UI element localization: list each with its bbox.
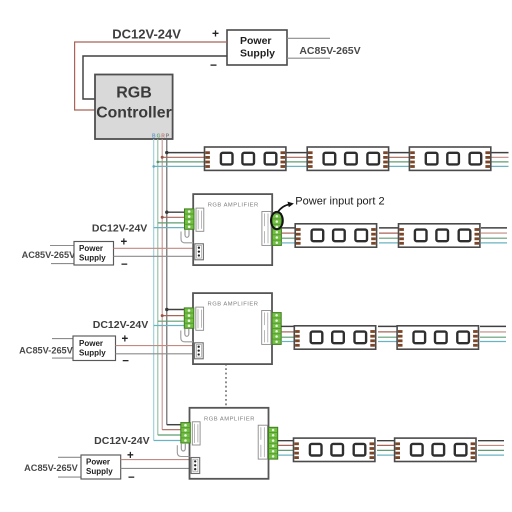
rgb amplifier A1 <box>181 194 281 265</box>
wire PS2 AC stub bottom <box>51 263 74 265</box>
wire amp3 out green <box>278 449 294 451</box>
wire tap amp2 black <box>167 309 186 311</box>
wire PS3 AC stub bottom <box>52 357 73 359</box>
wire tap amp3 green <box>158 434 183 436</box>
wire PS4 AC stub top <box>58 456 81 458</box>
svg-text:+: + <box>212 27 219 41</box>
junction row1 blue <box>152 165 155 168</box>
wire amp2 out red <box>281 331 295 333</box>
wire amp2 out black <box>281 325 295 327</box>
wire tap amp3 blue <box>154 440 183 442</box>
wire amp3 out black <box>278 440 294 442</box>
wire PS3 minus to amp2 port1 (gray) <box>116 353 195 355</box>
junction amp1 red <box>161 216 164 219</box>
svg-text:Supply: Supply <box>240 48 275 60</box>
arrow to label <box>278 204 291 212</box>
wire tap amp1 blue <box>154 227 186 229</box>
wire PS4 plus to amp3 port1 (red) <box>121 459 191 461</box>
wire amp3 out red <box>278 444 294 446</box>
svg-text:AC85V-265V: AC85V-265V <box>299 45 360 57</box>
wire tap amp1 black <box>167 211 186 213</box>
row3 tail wires <box>480 326 506 341</box>
row3 gap wires <box>378 326 398 341</box>
junction row1 red <box>161 156 164 159</box>
wire tap amp3 red <box>162 429 182 431</box>
svg-text:DC12V-24V: DC12V-24V <box>112 26 181 41</box>
power supply PS2 <box>74 242 114 266</box>
svg-text:Power: Power <box>240 35 272 47</box>
row1 gap wires 1-2 <box>285 153 308 167</box>
svg-text:AC85V-265V: AC85V-265V <box>19 345 73 355</box>
row2 gap wires <box>379 228 399 243</box>
wire tap amp1 green <box>158 222 186 224</box>
rgb amplifier A3 <box>177 408 277 479</box>
wire PS1 AC line bottom <box>287 57 330 59</box>
svg-text:DC12V-24V: DC12V-24V <box>93 319 148 331</box>
wire bus black vertical <box>166 139 168 425</box>
wire amp2 out green <box>281 336 295 338</box>
wire tap row1 red <box>162 156 204 158</box>
wire bus green vertical <box>157 139 159 435</box>
wire PS3 plus to amp2 port1 (red) <box>116 345 195 347</box>
wire tap row1 blue <box>154 165 205 167</box>
svg-text:−: − <box>210 58 217 72</box>
wire amp1 out green <box>281 237 296 239</box>
svg-text:DC12V-24V: DC12V-24V <box>92 223 147 235</box>
row2 tail wires <box>481 228 507 243</box>
wire amp2 out blue <box>281 341 295 343</box>
LED strip row2 #2 <box>399 224 480 247</box>
svg-text:+: + <box>122 333 129 345</box>
svg-text:Supply: Supply <box>79 349 106 358</box>
wire PS2 minus to amp1 port1 (gray) <box>114 255 195 257</box>
svg-text:AC85V-265V: AC85V-265V <box>22 250 76 260</box>
wire PS1 plus to controller (red) <box>75 42 227 110</box>
rgb amplifier A2 <box>181 293 281 364</box>
row1 gap wires 2-3 <box>388 153 410 167</box>
wire bus blue vertical <box>153 139 155 441</box>
wire PS2 plus to amp1 port1 (red) <box>114 247 195 249</box>
wire tap amp2 red <box>162 315 186 317</box>
wire PS1 minus to controller (black) <box>83 56 227 99</box>
svg-text:Supply: Supply <box>79 254 106 263</box>
power supply PS3 <box>73 336 116 361</box>
junction amp2 red <box>161 314 164 317</box>
power supply PS1 <box>227 30 287 65</box>
wire tap amp1 red <box>162 216 186 218</box>
svg-text:+: + <box>121 237 128 249</box>
wire bus red vertical <box>161 139 163 430</box>
svg-text:Power: Power <box>86 458 110 467</box>
svg-text:Supply: Supply <box>86 467 113 476</box>
RGB controller U1 <box>95 75 173 140</box>
svg-text:−: − <box>121 259 128 271</box>
wire PS4 AC stub bottom <box>58 476 81 478</box>
row1 tail wires <box>490 153 509 167</box>
wire PS3 AC stub top <box>52 338 73 340</box>
svg-text:G: G <box>157 134 161 140</box>
junction amp1 black <box>165 211 168 214</box>
power supply PS4 <box>81 455 121 479</box>
wire tap row1 green <box>158 161 205 163</box>
LED strip row3 #2 <box>397 326 478 349</box>
wire tap row1 black <box>167 152 205 154</box>
svg-text:Controller: Controller <box>96 105 171 122</box>
wire tap amp2 green <box>158 320 186 322</box>
svg-text:R: R <box>161 134 165 140</box>
wire PS4 minus to amp3 port1 (gray) <box>121 467 191 469</box>
svg-text:Power: Power <box>79 339 103 348</box>
LED strip row1 #2 <box>307 147 388 170</box>
svg-text:−: − <box>128 472 135 484</box>
LED strip row3 #1 <box>294 326 375 349</box>
wire tap amp2 blue <box>154 325 186 327</box>
wire amp1 out black <box>281 227 296 229</box>
row4 tail wires <box>478 441 504 455</box>
LED strip row1 #1 <box>205 147 286 170</box>
wire PS2 AC stub top <box>50 245 74 247</box>
svg-text:Power: Power <box>79 244 103 253</box>
svg-text:−: − <box>122 356 129 368</box>
junction row1 green <box>157 161 160 164</box>
svg-text:RGB: RGB <box>116 85 152 102</box>
wire PS1 AC line top <box>287 37 330 39</box>
wire amp3 out blue <box>278 454 294 456</box>
svg-text:Power input port 2: Power input port 2 <box>295 196 384 208</box>
svg-text:AC85V-265V: AC85V-265V <box>24 463 78 473</box>
LED strip row4 #2 <box>395 438 476 461</box>
wire amp1 out blue <box>281 242 296 244</box>
wire tap amp3 black <box>167 424 183 426</box>
svg-text:B: B <box>152 134 156 140</box>
junction row1 black <box>165 151 168 154</box>
wire amp1 out red <box>281 232 296 234</box>
row4 gap wires <box>377 441 395 455</box>
ellipse power input port 2 highlight <box>271 212 283 229</box>
dashed cascade link <box>225 364 227 408</box>
LED strip row1 #3 <box>409 147 490 170</box>
junction amp2 black <box>165 308 168 311</box>
svg-text:DC12V-24V: DC12V-24V <box>94 435 149 447</box>
LED strip row4 #1 <box>294 438 375 461</box>
LED strip row2 #1 <box>295 224 376 247</box>
